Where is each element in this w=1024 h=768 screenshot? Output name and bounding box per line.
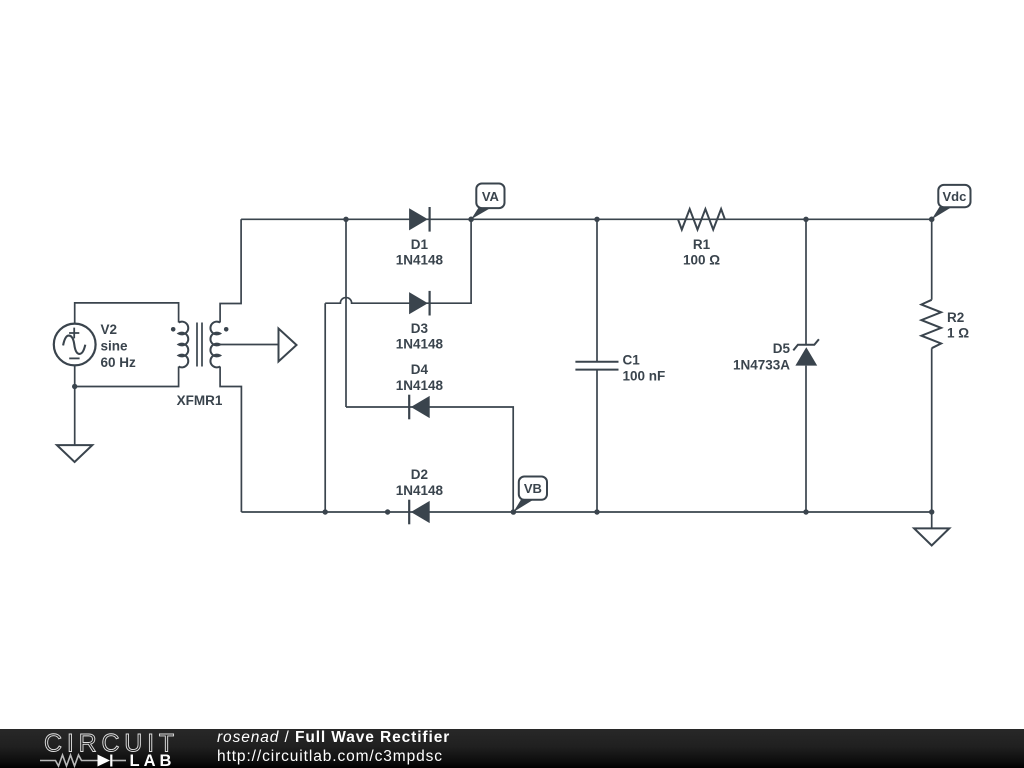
wire bottom rail	[241, 511, 931, 513]
svg-text:100 Ω: 100 Ω	[683, 253, 720, 268]
wire D3 anode to bottom rail	[324, 303, 326, 512]
wire D5 bottom	[805, 366, 807, 512]
wire D5 top	[805, 219, 807, 344]
wire XFMR1 secondary top to top rail	[220, 219, 241, 322]
svg-text:1N4148: 1N4148	[396, 253, 444, 268]
svg-text:XFMR1: XFMR1	[177, 393, 223, 408]
diode D3	[396, 291, 444, 352]
svg-text:100 nF: 100 nF	[623, 369, 666, 384]
wire V2 top to XFMR1 primary top	[75, 303, 179, 324]
svg-text:LAB: LAB	[130, 752, 176, 768]
svg-text:C1: C1	[623, 352, 641, 367]
svg-text:V2: V2	[101, 322, 118, 337]
center tap arrow	[279, 329, 297, 362]
node label VB	[511, 477, 547, 515]
phase dot primary	[171, 327, 176, 332]
phase dot secondary	[224, 327, 229, 332]
voltage source V2	[54, 324, 96, 366]
svg-text:1N4148: 1N4148	[396, 483, 444, 498]
wire node A vertical (D1 anode to D4 row)	[345, 219, 347, 407]
svg-text:Vdc: Vdc	[942, 189, 966, 204]
svg-text:1N4148: 1N4148	[396, 378, 444, 393]
node C1 bottom	[594, 509, 599, 514]
diode D1	[396, 207, 444, 268]
transformer XFMR1	[179, 322, 221, 368]
footer bar	[0, 729, 1024, 768]
svg-text:R2: R2	[947, 310, 964, 325]
wire R2 top	[931, 219, 933, 299]
node R2 bottom	[929, 509, 934, 514]
node V2 bottom junction	[72, 384, 77, 389]
svg-text:1N4148: 1N4148	[396, 337, 444, 352]
wire C1 bottom	[596, 370, 598, 512]
wire right ground stub	[931, 512, 933, 528]
svg-text:60 Hz: 60 Hz	[101, 355, 137, 370]
V2 labels	[101, 322, 137, 370]
node D1 anode junction	[343, 217, 348, 222]
wire XFMR1 primary bottom to V2 bottom node	[75, 367, 179, 387]
wire XFMR1 center tap	[220, 344, 278, 346]
wire R2 bottom	[931, 348, 933, 512]
svg-text:sine: sine	[101, 339, 129, 354]
svg-text:VB: VB	[524, 481, 542, 496]
svg-text:D5: D5	[773, 341, 791, 356]
CircuitLab logo	[0, 729, 200, 768]
wire top rail	[241, 218, 932, 220]
wire V2 bottom	[74, 365, 76, 387]
svg-text:D2: D2	[411, 467, 428, 482]
wire XFMR1 secondary bottom to bottom rail	[220, 367, 241, 513]
node D5 top	[803, 217, 808, 222]
capacitor C1	[575, 352, 665, 383]
diode D4	[396, 362, 444, 419]
node label Vdc	[929, 185, 971, 222]
node D5 bottom	[803, 509, 808, 514]
wire D4 row to VB node	[346, 407, 513, 512]
zener diode D5	[733, 339, 819, 372]
diode D2	[396, 467, 444, 524]
resistor R2	[921, 300, 969, 348]
svg-text:VA: VA	[482, 189, 500, 204]
ground (right)	[914, 528, 949, 545]
svg-text:D1: D1	[411, 237, 429, 252]
resistor R1	[678, 209, 725, 268]
footer title text	[217, 728, 450, 767]
node D2 cathode junction	[385, 509, 390, 514]
node D3 anode bottom junction	[323, 509, 328, 514]
node C1 top	[594, 217, 599, 222]
svg-text:1 Ω: 1 Ω	[947, 326, 969, 341]
wire D3 row with hop over vertical	[325, 219, 471, 303]
wire V2 ground stub	[74, 387, 76, 446]
wire C1 top	[596, 219, 598, 361]
svg-text:1N4733A: 1N4733A	[733, 358, 790, 373]
ground (V2)	[57, 445, 92, 462]
svg-text:D4: D4	[411, 362, 429, 377]
node label VA	[468, 184, 504, 223]
svg-text:D3: D3	[411, 321, 429, 336]
svg-text:R1: R1	[693, 237, 711, 252]
